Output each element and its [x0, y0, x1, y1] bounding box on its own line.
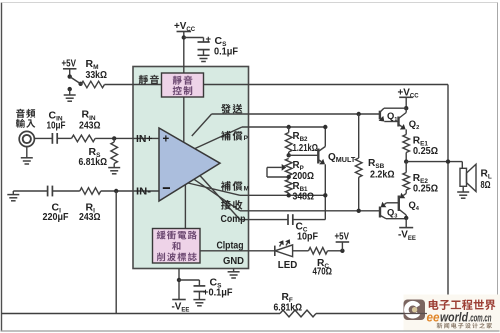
svg-text:0.25Ω: 0.25Ω	[413, 146, 438, 157]
label CS top	[214, 35, 238, 58]
label RE2	[413, 173, 438, 195]
wire buffer feed	[184, 185, 186, 229]
svg-text:348Ω: 348Ω	[293, 191, 315, 202]
eeworld watermark logo	[404, 295, 500, 332]
wire feedback right vertical	[447, 85, 449, 314]
node send-RSB	[357, 112, 361, 116]
node -Vee junction	[177, 278, 181, 282]
wire base tap to QMULT	[289, 154, 318, 156]
svg-text:.com.cn: .com.cn	[469, 312, 492, 324]
wire compP pin	[193, 127, 326, 150]
resistor RI 243	[80, 188, 101, 195]
resistor RIN 243	[72, 135, 96, 142]
wire send pin	[192, 114, 380, 136]
connector J1 audio jack	[19, 131, 34, 157]
node RP-RB1	[287, 175, 291, 179]
ground of RS	[108, 168, 120, 174]
label Comp pin	[221, 214, 246, 225]
svg-text:IN+: IN+	[136, 134, 153, 145]
label RP	[293, 160, 315, 182]
node QMULT emitter compM	[323, 193, 327, 197]
potentiometer RP 200	[267, 159, 292, 178]
wire mute line	[105, 84, 449, 86]
resistor RC 470	[309, 248, 328, 255]
label GND pin	[223, 256, 244, 267]
node Q3Q4 collectors	[404, 216, 408, 220]
ground of GND pin	[228, 269, 240, 279]
label RSB	[368, 158, 395, 181]
label CS bottom	[209, 276, 233, 298]
label CC	[296, 221, 319, 242]
node compP-RB2	[287, 125, 291, 129]
bottom image border	[1, 330, 500, 332]
label Q2	[409, 118, 419, 131]
label RF	[274, 292, 303, 313]
resistor RM 33k	[81, 81, 105, 88]
node IN- junction	[114, 189, 118, 193]
svg-text:+: +	[163, 134, 170, 146]
resistor RB1 348	[285, 180, 292, 196]
label sink pin	[221, 200, 242, 210]
transistor Q3	[380, 202, 406, 219]
ground of switch	[64, 95, 76, 101]
wire IN- stub	[133, 190, 159, 192]
label IN+	[136, 134, 153, 145]
label RM	[86, 58, 108, 81]
label LED	[278, 260, 298, 271]
label RE1	[413, 135, 438, 157]
wire gnd to CI	[13, 190, 47, 192]
capacitor CIN 10uF	[52, 133, 57, 144]
resistor RSB 2.2k	[355, 114, 362, 211]
switch SW mute	[68, 74, 83, 94]
svg-text:LED: LED	[278, 260, 298, 271]
label CI	[43, 201, 69, 223]
wire CI to RI	[52, 190, 79, 192]
label IN-	[136, 187, 151, 198]
label RB2	[293, 131, 319, 154]
svg-text:GND: GND	[223, 256, 244, 267]
label CIN	[47, 109, 66, 131]
svg-text:8Ω: 8Ω	[481, 180, 491, 191]
svg-text:0.1μF: 0.1μF	[209, 288, 233, 299]
svg-text:6.81kΩ: 6.81kΩ	[274, 302, 303, 313]
ground of CS bottom	[193, 300, 205, 306]
wire sink pin	[194, 179, 380, 211]
label RS	[79, 146, 108, 168]
transistor Q2	[399, 108, 407, 134]
svg-text:M: M	[244, 186, 249, 193]
node output-feedback	[446, 159, 450, 163]
svg-text:470Ω: 470Ω	[313, 267, 333, 278]
node RB2-RP base tap	[287, 153, 291, 157]
wire IN+ stub	[133, 137, 159, 139]
label Q3	[387, 206, 397, 219]
-Vee supply (bottom)	[172, 300, 190, 314]
wire compM pin	[188, 183, 325, 195]
svg-text:243Ω: 243Ω	[79, 120, 101, 131]
label send pin	[221, 104, 242, 114]
wire RC to +5V	[328, 250, 343, 252]
ground of jack	[21, 158, 33, 164]
label Clptag pin	[217, 241, 244, 252]
wire feedback bottom	[2, 313, 449, 315]
IC box (amplifier block)	[133, 67, 249, 269]
wire LED to RC	[293, 250, 309, 252]
label RI	[79, 201, 101, 223]
node Vcc-Cs	[182, 35, 186, 39]
label compP pin	[221, 131, 249, 142]
node sink-RSB	[357, 209, 361, 213]
ground of CI	[7, 191, 19, 201]
svg-text:+5V: +5V	[335, 231, 350, 242]
svg-text:243Ω: 243Ω	[79, 212, 101, 223]
+5V supply (mute)	[62, 58, 77, 76]
mute control block	[162, 73, 204, 97]
wire to CS bottom	[179, 280, 199, 286]
resistor RB2 1.21k	[285, 127, 292, 155]
speaker RL 8ohm	[460, 164, 476, 192]
+Vcc supply (top)	[174, 21, 196, 33]
node output	[404, 159, 408, 163]
buffer and clip flag block	[153, 229, 201, 264]
node Vcc-Q1Q2	[404, 106, 408, 110]
label RIN	[79, 109, 101, 132]
svg-text:10pF: 10pF	[297, 232, 318, 243]
label mute pin	[139, 75, 159, 85]
+5V supply (LED)	[335, 231, 350, 251]
svg-text:10μF: 10μF	[47, 120, 66, 131]
svg-text:0.1μF: 0.1μF	[214, 47, 238, 58]
capacitor CI 220uF	[48, 186, 53, 197]
node IN+ junction	[112, 136, 116, 140]
wire to Cs	[184, 38, 204, 43]
capacitor CC 10pF	[288, 214, 325, 225]
svg-text:Clptag: Clptag	[217, 241, 244, 252]
wire jack to Cin	[34, 137, 52, 139]
transistor Q1	[379, 108, 407, 121]
label Q4	[409, 199, 420, 212]
wire Cin to Rin	[57, 137, 71, 139]
wire Rin to IN+	[95, 137, 133, 139]
wire IN- to feedback	[115, 191, 117, 314]
label audio input	[16, 109, 35, 128]
+Vcc supply (right)	[398, 87, 420, 108]
svg-text:P: P	[244, 135, 249, 142]
label RC	[313, 258, 333, 278]
label Q1	[387, 110, 397, 123]
resistor RS 6.81k	[111, 138, 118, 167]
svg-text:+: +	[206, 34, 212, 45]
label compM pin	[221, 181, 249, 192]
transistor Q4	[399, 193, 406, 218]
svg-text:6.81kΩ: 6.81kΩ	[79, 157, 108, 168]
svg-text:Comp: Comp	[221, 214, 246, 225]
label QMULT	[328, 152, 356, 164]
wire -Vee drop	[178, 269, 180, 300]
wire RI to IN-	[101, 190, 133, 192]
resistor RF 6.81k	[280, 310, 316, 317]
op-amp U1 triangle	[159, 128, 220, 201]
node RB1-compM	[287, 193, 291, 197]
wire clptag	[200, 250, 275, 252]
resistor RE1 0.25	[403, 135, 410, 162]
-Vee supply (right)	[398, 218, 416, 242]
svg-text:1.21kΩ: 1.21kΩ	[293, 143, 319, 154]
ground of speaker	[457, 192, 469, 198]
label RB1	[293, 181, 315, 203]
resistor RE2 0.25	[403, 162, 410, 194]
capacitor CS bottom (0.1uF)	[194, 286, 209, 300]
ground of CS top	[198, 55, 210, 61]
svg-text:2.2kΩ: 2.2kΩ	[370, 170, 395, 181]
wire +Vcc into box	[183, 32, 185, 143]
svg-text:world: world	[440, 310, 468, 324]
wire output to speaker	[406, 162, 462, 169]
svg-text:220μF: 220μF	[43, 212, 69, 223]
svg-text:ee: ee	[427, 310, 440, 324]
svg-text:IN-: IN-	[136, 187, 151, 198]
svg-text:+5V: +5V	[62, 58, 77, 69]
svg-text:33kΩ: 33kΩ	[86, 70, 108, 81]
LED D1	[275, 239, 293, 257]
node LED +5V	[340, 249, 344, 253]
label RL	[481, 168, 492, 191]
wire comp pin	[200, 176, 288, 220]
node QMULT collector	[323, 125, 327, 129]
capacitor CS top (0.1uF)	[198, 34, 212, 56]
svg-text:0.25Ω: 0.25Ω	[413, 184, 438, 195]
transistor QMULT	[318, 127, 325, 220]
